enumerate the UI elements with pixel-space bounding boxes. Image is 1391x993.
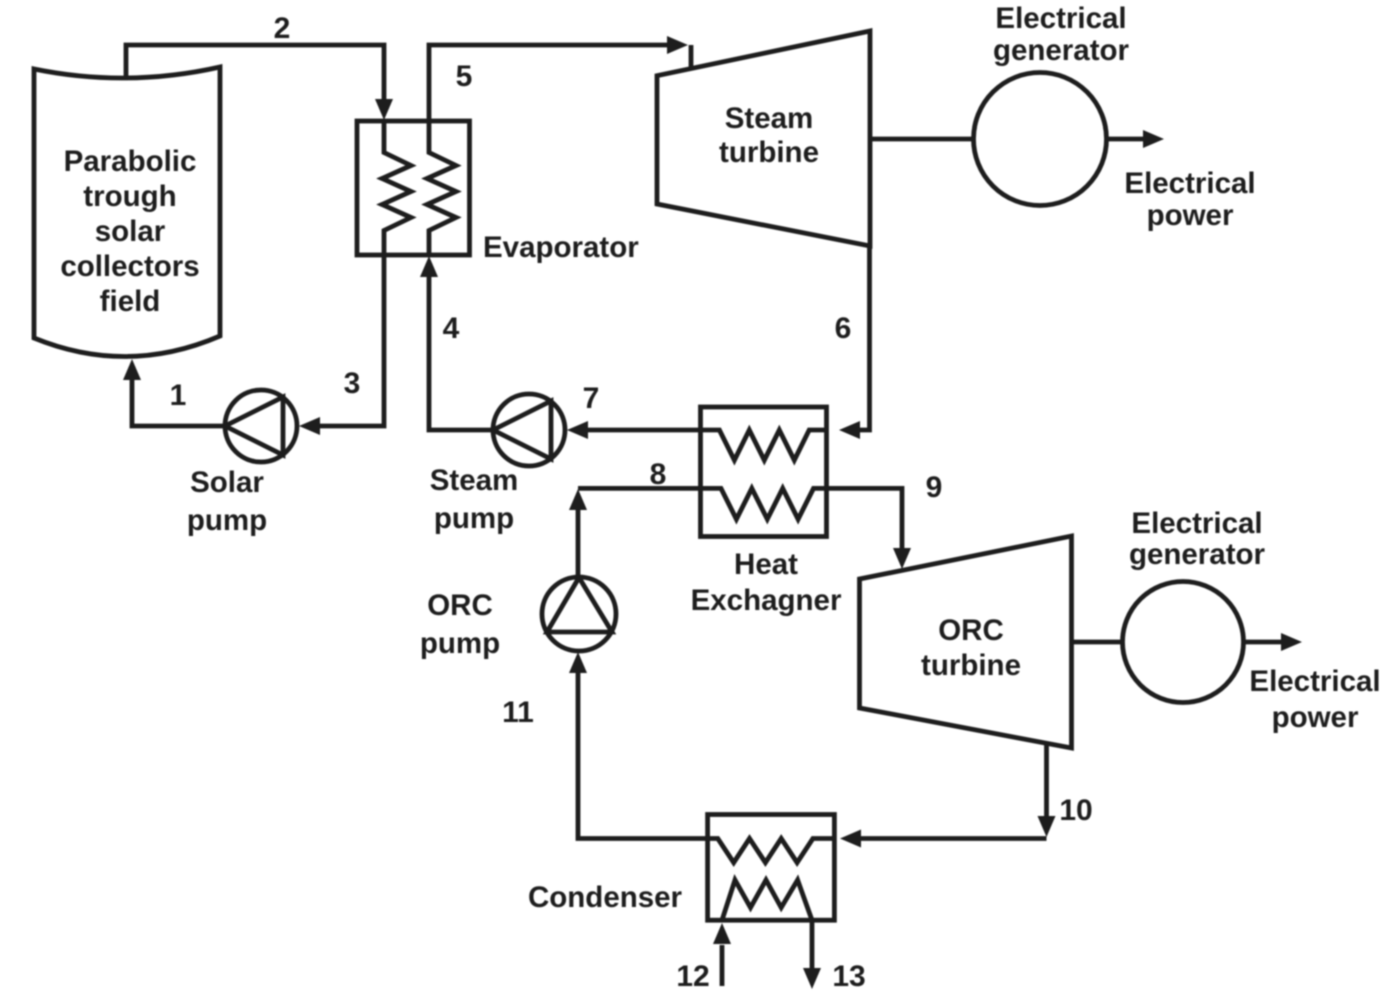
svg-text:7: 7: [583, 382, 600, 415]
collector label: [60, 145, 199, 318]
G2 label: [1129, 507, 1266, 571]
svg-text:generator: generator: [993, 34, 1130, 67]
wire 13 cooling water out: [803, 920, 821, 989]
node label 12: [676, 960, 709, 993]
steam pump P2: [493, 394, 565, 466]
steam turbine label: [719, 102, 819, 169]
condenser top coil: [708, 839, 835, 863]
svg-text:Electrical: Electrical: [1124, 167, 1255, 200]
svg-text:4: 4: [443, 312, 460, 345]
shaft ORC turbine to G2: [1072, 640, 1123, 645]
svg-text:collectors: collectors: [60, 250, 199, 283]
wire 6 steam turbine to heat exchanger: [839, 247, 870, 439]
steam pump label: [430, 464, 519, 535]
svg-text:solar: solar: [95, 215, 166, 248]
node label 2: [274, 12, 291, 45]
svg-text:12: 12: [676, 960, 709, 993]
svg-text:Steam: Steam: [725, 102, 814, 135]
svg-text:8: 8: [650, 458, 667, 491]
steam turbine: [657, 31, 870, 246]
node label 4: [443, 312, 460, 345]
wire 1 solar pump to collector: [123, 359, 225, 426]
svg-text:Solar: Solar: [190, 466, 264, 499]
svg-text:Electrical: Electrical: [995, 2, 1126, 35]
svg-text:power: power: [1272, 701, 1359, 734]
svg-text:Exchagner: Exchagner: [691, 584, 842, 617]
condenser box: [708, 815, 835, 921]
svg-text:6: 6: [835, 312, 852, 345]
evaporator right coil: [427, 121, 456, 255]
svg-text:Electrical: Electrical: [1249, 665, 1380, 698]
wire 5 evaporator to steam turbine: [429, 36, 691, 121]
svg-text:field: field: [100, 285, 161, 318]
G1 output arrow: [1107, 130, 1165, 148]
svg-text:pump: pump: [187, 504, 267, 537]
svg-text:Condenser: Condenser: [528, 881, 683, 914]
heat exchanger top coil: [701, 430, 827, 460]
electrical power label top: [1124, 167, 1255, 232]
G2 output arrow: [1244, 633, 1303, 651]
node label 13: [832, 960, 865, 993]
node label 9: [926, 471, 943, 504]
svg-text:Parabolic: Parabolic: [64, 145, 197, 178]
svg-text:pump: pump: [420, 627, 500, 660]
svg-text:pump: pump: [434, 502, 514, 535]
wire 2 collector to evaporator: [126, 45, 393, 120]
wire 11 condenser to ORC pump: [569, 652, 708, 839]
solar pump label: [187, 466, 267, 537]
svg-text:power: power: [1147, 199, 1234, 232]
node label 5: [456, 60, 473, 93]
ORC turbine label: [921, 614, 1021, 682]
ORC pump P3: [542, 577, 616, 651]
svg-text:ORC: ORC: [427, 589, 493, 622]
svg-text:generator: generator: [1129, 538, 1266, 571]
heat exchanger label: [691, 548, 842, 617]
svg-text:turbine: turbine: [921, 649, 1021, 682]
electrical generator G2: [1123, 582, 1244, 703]
parabolic trough solar collectors field: [34, 67, 220, 357]
svg-text:9: 9: [926, 471, 943, 504]
svg-text:Steam: Steam: [430, 464, 519, 497]
evaporator left coil: [382, 121, 411, 255]
svg-text:5: 5: [456, 60, 473, 93]
svg-text:Heat: Heat: [734, 548, 798, 581]
svg-text:turbine: turbine: [719, 136, 819, 169]
wire 7 heat exchanger to steam pump: [567, 421, 701, 439]
wire 3 evaporator to solar pump: [299, 255, 384, 435]
heat exchanger box: [701, 407, 827, 537]
svg-text:Electrical: Electrical: [1131, 507, 1262, 540]
condenser bottom coil: [722, 880, 812, 920]
node label 3: [344, 367, 361, 400]
ORC turbine: [860, 536, 1072, 748]
svg-text:trough: trough: [83, 180, 176, 213]
svg-text:Evaporator: Evaporator: [483, 231, 639, 264]
wire 8 ORC pump to heat exchanger: [569, 488, 701, 577]
heat exchanger bottom coil: [701, 488, 827, 519]
svg-text:10: 10: [1059, 794, 1092, 827]
node label 7: [583, 382, 600, 415]
evaporator label: [483, 231, 639, 264]
solar pump P1: [225, 390, 297, 462]
G1 label: [993, 2, 1130, 67]
wire 12 cooling water in: [713, 923, 731, 986]
condenser label: [528, 881, 683, 914]
node label 1: [170, 379, 187, 412]
svg-text:ORC: ORC: [938, 614, 1004, 647]
electrical generator G1: [974, 73, 1107, 206]
svg-text:11: 11: [502, 696, 534, 729]
svg-text:3: 3: [344, 367, 361, 400]
shaft steam turbine to G1: [870, 137, 974, 142]
node label 6: [835, 312, 852, 345]
node label 10: [1059, 794, 1092, 827]
ORC pump label: [420, 589, 500, 660]
svg-text:2: 2: [274, 12, 291, 45]
evaporator box: [357, 121, 470, 255]
node label 8: [650, 458, 667, 491]
svg-text:13: 13: [832, 960, 865, 993]
node label 11: [502, 696, 534, 729]
wire 10 ORC turbine to condenser: [840, 744, 1056, 848]
svg-text:1: 1: [170, 379, 187, 412]
wire 4 steam pump to evaporator: [420, 256, 493, 430]
wire 9 heat exchanger to ORC turbine: [826, 488, 911, 569]
electrical power label bottom: [1249, 665, 1380, 734]
